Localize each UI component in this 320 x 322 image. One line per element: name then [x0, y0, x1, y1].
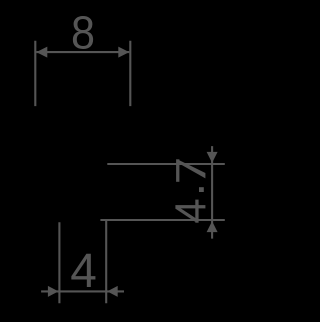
- dimension text 4.7 rotated: digit 4 stem: [175, 205, 205, 208]
- dimension text 4.7 rotated: digit 4 crossbar: [195, 200, 198, 223]
- dimension text 4.7 rotated: decimal point: [199, 187, 204, 192]
- dimension line vertical (dim 4.7): [211, 146, 213, 239]
- arrowhead left (dim 8): [36, 47, 47, 58]
- arrowhead left-pointing (dim 4 right): [107, 286, 118, 297]
- extension line right (dim 8): [129, 41, 131, 106]
- extension line right (dim 4): [105, 220, 107, 303]
- dimension line (dim 4): [41, 290, 124, 292]
- object line top (dim 4.7 upper edge): [107, 163, 225, 165]
- dimension text 4.7 rotated: digit 7 diagonal: [178, 160, 205, 179]
- arrowhead right-pointing (dim 4 left): [48, 286, 59, 297]
- svg-text:8: 8: [71, 8, 95, 58]
- dimension text 4.7 rotated: digit 4 diagonal: [176, 207, 196, 220]
- extension line left (dim 8): [34, 41, 36, 106]
- dimension line (dim 8): [36, 51, 129, 53]
- dimension text 4.7 rotated: digit 7 top bar: [176, 159, 179, 182]
- arrowhead up (dim 4.7 bottom): [207, 221, 218, 232]
- extension line left (dim 4): [58, 222, 60, 303]
- arrowhead down (dim 4.7 top): [207, 152, 218, 163]
- svg-text:4: 4: [70, 245, 97, 298]
- object line bottom (dim 4.7 lower edge): [100, 219, 224, 221]
- arrowhead right (dim 8): [118, 47, 129, 58]
